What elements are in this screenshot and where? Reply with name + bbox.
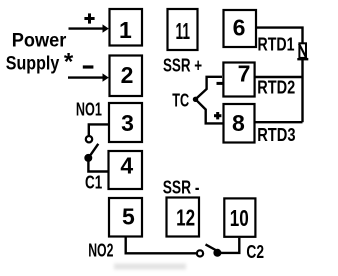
svg-text:7: 7: [238, 61, 251, 87]
svg-text:12: 12: [176, 205, 195, 231]
svg-text:1: 1: [119, 17, 132, 43]
svg-text:C2: C2: [246, 241, 264, 262]
svg-text:5: 5: [122, 204, 135, 230]
svg-text:C1: C1: [85, 172, 102, 193]
svg-text:2: 2: [121, 62, 134, 88]
svg-text:RTD3: RTD3: [257, 124, 295, 145]
svg-text:SSR +: SSR +: [163, 54, 202, 75]
svg-text:SSR -: SSR -: [163, 176, 200, 197]
svg-text:NO1: NO1: [76, 99, 102, 120]
svg-text:RTD1: RTD1: [258, 33, 295, 54]
svg-text:6: 6: [233, 15, 246, 41]
svg-text:8: 8: [232, 110, 245, 136]
svg-text:*: *: [64, 48, 74, 75]
svg-text:4: 4: [120, 153, 133, 179]
svg-text:11: 11: [176, 18, 191, 44]
svg-text:NO2: NO2: [88, 240, 113, 261]
svg-text:Power: Power: [12, 29, 67, 51]
svg-text:3: 3: [121, 110, 134, 136]
svg-text:Supply: Supply: [6, 52, 60, 74]
svg-text:TC: TC: [172, 90, 189, 111]
svg-text:RTD2: RTD2: [257, 77, 295, 98]
svg-text:10: 10: [230, 205, 249, 231]
